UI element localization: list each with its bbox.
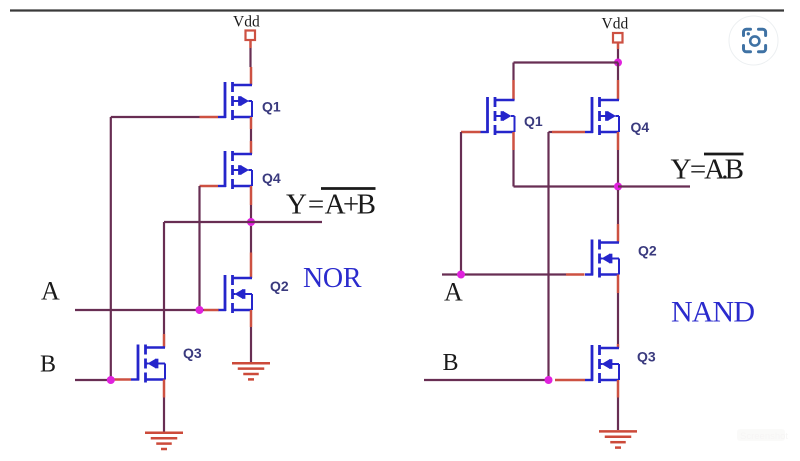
junction A / Q1-gate (right)	[457, 271, 465, 279]
ground under Q3 (left)	[145, 433, 183, 449]
svg-text:Q4: Q4	[631, 119, 650, 135]
wire output node down to Q2 drain (left)	[250, 226, 252, 278]
svg-text:Y = A+B: Y = A+B	[286, 189, 376, 221]
svg-text:B: B	[443, 350, 459, 376]
wire Vdd to Q1 drain (left)	[249, 40, 252, 85]
wire output to Q3 drain vertical (left)	[163, 222, 165, 348]
svg-text:Y = A.B: Y = A.B	[671, 154, 745, 186]
Vdd junction node (right)	[614, 59, 622, 67]
wire Q4 source to output node (right)	[617, 132, 620, 187]
junction A / Q4-gate (left)	[196, 306, 204, 314]
ground under Q2 (left)	[232, 363, 270, 379]
junction B / Q4-gate (right)	[545, 376, 553, 384]
svg-text:Vdd: Vdd	[233, 14, 260, 31]
output net horizontal wire (left)	[164, 221, 322, 223]
svg-text:NOR: NOR	[303, 263, 362, 294]
wire Q4 source to output node (left)	[250, 186, 253, 222]
transistor Q1 (left PMOS)	[218, 82, 252, 120]
svg-text:Q1: Q1	[262, 99, 281, 115]
wire Q4 gate to A net (left)	[200, 185, 219, 188]
Vdd terminal (right)	[613, 33, 623, 43]
wire Q2 source to Q3 drain (right)	[617, 275, 620, 349]
svg-text:A: A	[444, 278, 463, 307]
wire Q4 gate to B net (right)	[549, 132, 586, 380]
transistor Q2 (left NMOS)	[218, 275, 252, 313]
google lens icon top right	[729, 16, 778, 65]
transistor Q3 (right NMOS)	[585, 345, 619, 383]
svg-text:Q1: Q1	[524, 113, 543, 129]
wire Q1 gate to A net (right)	[461, 132, 481, 275]
overline over A.B	[704, 153, 744, 156]
input wire A (right)	[442, 273, 585, 275]
output net horizontal wire (right)	[618, 185, 690, 187]
svg-text:A: A	[41, 277, 60, 306]
wire Vdd node to Q1 drain (right)	[514, 63, 619, 101]
wire Q2 source to ground (left)	[250, 310, 253, 363]
wire Vdd node to Q4 drain (right)	[617, 63, 619, 101]
overline over A+B	[321, 187, 376, 190]
top horizontal rule	[10, 9, 784, 11]
junction B / Q1-gate (left)	[107, 376, 115, 384]
wire output node to Q2 drain (right)	[617, 190, 619, 243]
wire B net vertical (left)	[110, 117, 112, 380]
input wire A (left)	[75, 309, 219, 311]
transistor Q4 (left PMOS)	[218, 151, 252, 189]
svg-text:Q2: Q2	[270, 278, 289, 294]
wire A net vertical (left)	[198, 186, 200, 310]
svg-text:NAND: NAND	[671, 296, 755, 329]
svg-text:Q3: Q3	[637, 349, 656, 365]
input wire B (left)	[75, 378, 131, 381]
svg-text:Q2: Q2	[638, 243, 657, 259]
wire Q1 gate to B net (left)	[111, 116, 218, 119]
svg-text:Vdd: Vdd	[602, 16, 629, 33]
output junction node (left)	[247, 218, 255, 226]
input wire B (right)	[424, 379, 585, 381]
Vdd terminal (left)	[246, 31, 256, 41]
wire Q1 source to Q4 drain (left)	[250, 117, 253, 154]
svg-text:Q3: Q3	[183, 345, 202, 361]
faint watermark bottom right	[737, 429, 788, 442]
output junction node (right)	[614, 183, 622, 191]
ground under Q3 (right)	[599, 431, 637, 447]
transistor Q3 (left NMOS)	[131, 345, 165, 383]
wire Vdd down to node (right)	[617, 43, 620, 63]
transistor Q2 (right NMOS)	[585, 240, 619, 278]
wire Q3 source to ground (left)	[163, 380, 166, 433]
svg-text:B: B	[40, 352, 56, 378]
svg-text:Screenshot: Screenshot	[740, 431, 788, 442]
transistor Q4 (right PMOS)	[585, 97, 619, 135]
wire Q3 source to ground (right)	[617, 380, 620, 430]
transistor Q1 (right PMOS)	[481, 97, 515, 135]
svg-text:Q4: Q4	[262, 170, 281, 186]
wire Q1 source to output node (right)	[514, 132, 619, 187]
